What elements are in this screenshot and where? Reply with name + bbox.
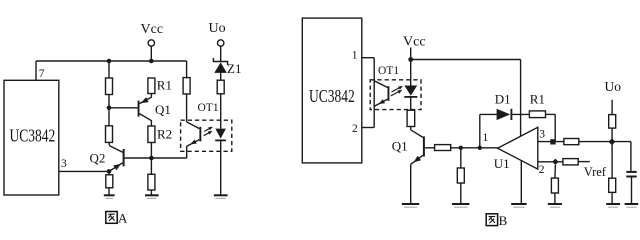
node A junction dot	[107, 106, 112, 111]
ground Q1 right	[402, 203, 419, 205]
wire Q1 base	[109, 107, 138, 109]
wire resistor to Q1 collector	[410, 127, 412, 130]
svg-text:R1: R1	[530, 91, 545, 106]
ground op-amp	[511, 203, 527, 205]
LED cathode bar right	[404, 96, 417, 98]
node pin2 diamond junction	[552, 159, 558, 165]
svg-text:R2: R2	[157, 127, 172, 142]
resistor bottom-left	[106, 175, 113, 188]
wire rail from pin 7	[36, 60, 187, 62]
node junction divider	[459, 146, 463, 150]
wire cap to ground	[631, 177, 633, 204]
capacitor C1 top plate	[626, 171, 636, 173]
ground mid	[145, 194, 159, 196]
wire LED to resistor	[410, 97, 412, 110]
svg-text:R1: R1	[157, 78, 172, 93]
wire op-amp bottom to ground	[520, 161, 522, 204]
resistor Vref chain	[609, 178, 616, 192]
resistor pin3 row	[564, 139, 579, 145]
ground left	[104, 194, 115, 196]
wire Vcc down	[410, 48, 412, 60]
wire Vcc rail right	[411, 59, 521, 61]
wire R2 to bottom resistor	[150, 143, 152, 175]
wire to ground	[150, 190, 152, 195]
pin 1 wire	[362, 57, 374, 59]
node pin3 square junction	[550, 139, 555, 144]
wire pin3 row to cap corner	[579, 141, 631, 143]
svg-text:A: A	[118, 211, 128, 226]
wire junction to bottom-left resistor	[108, 171, 110, 174]
svg-text:Vcc: Vcc	[141, 22, 164, 37]
wire pin1-pin2 connector	[373, 58, 375, 128]
wire to D1	[480, 113, 497, 115]
wire rail to upper-left resistor	[108, 61, 110, 78]
transistor Q1 right emitter diagonal	[411, 155, 423, 164]
wire emitter down	[186, 146, 188, 158]
Uo terminal circle left	[218, 40, 224, 46]
light arrow 1 right	[392, 87, 402, 92]
wire Uo to zener	[220, 46, 222, 61]
ground cap	[625, 203, 639, 205]
node junction D1 tap	[478, 146, 482, 150]
resistor bottom-mid	[148, 174, 155, 190]
wire to Vref terminal	[578, 161, 590, 163]
svg-text:UC3842: UC3842	[309, 88, 355, 107]
optocoupler OT1 right dashed box	[370, 80, 421, 110]
resistor zener chain	[217, 80, 224, 94]
wire R1 to corner	[546, 113, 556, 115]
resistor upper-left (bias)	[106, 78, 113, 95]
svg-text:Q1: Q1	[392, 139, 408, 154]
wire resistor to junction	[611, 128, 613, 142]
pin 2 wire	[362, 127, 374, 129]
LED triangle left	[215, 129, 226, 139]
svg-text:Z1: Z1	[227, 61, 241, 76]
light arrow 2 right	[391, 91, 401, 96]
ground right-left-circuit	[214, 194, 228, 196]
svg-text:3: 3	[61, 158, 67, 170]
phototransistor emitter arrow	[190, 140, 196, 145]
wire divider down	[460, 148, 462, 168]
svg-text:Uo: Uo	[605, 79, 622, 94]
phototransistor emitter diagonal	[187, 140, 200, 147]
wire resistor to LED	[220, 94, 222, 129]
wire Q1 emitter to ground	[410, 164, 412, 203]
wire junction down to Vref resistor	[611, 142, 613, 179]
svg-text:3: 3	[539, 128, 545, 140]
light arrow 1	[204, 127, 211, 131]
node junction mid wire	[149, 156, 154, 161]
svg-text:U1: U1	[494, 156, 510, 171]
svg-text:Vcc: Vcc	[403, 35, 426, 50]
resistor R1	[148, 78, 155, 94]
phototransistor collector diagonal right	[374, 81, 387, 88]
wire to ground	[554, 193, 556, 203]
resistor R1 right	[529, 111, 545, 118]
phototransistor bar right	[388, 86, 390, 101]
svg-text:B: B	[499, 213, 508, 228]
wire Uo down	[611, 100, 613, 115]
zener Z1 cathode bar	[213, 58, 227, 65]
resistor Q1 base	[435, 145, 451, 151]
ground divider	[452, 203, 469, 205]
wire corner down to pin3 node	[554, 114, 556, 141]
resistor top-right	[183, 78, 190, 94]
wire Q1 base to resistor	[425, 147, 435, 149]
svg-text:2: 2	[352, 123, 358, 135]
svg-text:7: 7	[39, 68, 45, 80]
ground pin2 divider	[548, 203, 562, 205]
resistor lower-left (bias)	[106, 126, 113, 143]
wire D1 tap up	[479, 114, 481, 147]
svg-text:1: 1	[483, 132, 489, 144]
phototransistor emitter arrow right	[379, 99, 385, 104]
wire resistor to optocoupler collector	[186, 94, 188, 122]
wire Vcc to rail	[150, 46, 152, 61]
wire op-amp pin2	[538, 161, 563, 163]
node Vcc junction right	[408, 57, 413, 62]
transistor Q1 collector diagonal	[140, 114, 152, 126]
transistor Q1 right collector diagonal	[411, 130, 423, 138]
wire Vcc to LED right	[410, 60, 412, 86]
transistor Q1 emitter diagonal	[140, 94, 152, 104]
svg-text:OT1: OT1	[198, 102, 219, 114]
resistor Uo chain	[609, 115, 616, 129]
phototransistor bar	[199, 127, 201, 141]
figure label A	[106, 212, 117, 224]
wire Q2 base to optocoupler	[125, 157, 187, 159]
transistor Q2 collector diagonal	[109, 146, 122, 153]
transistor Q2 emitter diagonal	[109, 163, 123, 172]
pin 7 stub wire	[35, 61, 37, 80]
resistor LED chain	[407, 110, 415, 126]
svg-text:1: 1	[352, 50, 358, 62]
op-amp U1 triangle	[498, 127, 538, 169]
LED cathode bar left	[215, 139, 226, 141]
node junction pin3	[107, 169, 112, 174]
optocoupler OT1 dashed box	[181, 120, 232, 151]
wire resistor to node A	[108, 95, 110, 126]
transistor Q1 right base bar	[423, 136, 425, 156]
IC U-right UC3842 box	[302, 18, 362, 163]
diode D1 triangle	[497, 109, 511, 120]
node junction rail-left	[107, 59, 112, 64]
zener Z1 triangle	[214, 62, 227, 73]
node Uo junction diamond	[609, 138, 616, 145]
wire zener to resistor	[220, 73, 222, 81]
transistor Q2 base bar	[123, 149, 125, 166]
wire op-amp pin3	[538, 141, 564, 143]
svg-text:2: 2	[539, 164, 545, 176]
wire Vcc drop to op-amp	[520, 60, 522, 137]
IC U-left UC3842 box	[4, 80, 59, 195]
resistor divider	[457, 168, 464, 183]
wire rail right corner down	[186, 61, 188, 78]
wire divider to ground	[460, 183, 462, 203]
transistor Q2 emitter arrow	[113, 164, 121, 170]
wire pin2 junction down	[554, 165, 557, 178]
phototransistor collector diagonal	[187, 122, 200, 129]
pin 3 wire	[59, 170, 109, 172]
resistor pin2 divider	[551, 178, 558, 193]
wire D1 to R1	[511, 113, 529, 115]
svg-text:OT1: OT1	[378, 65, 399, 77]
LED triangle right	[404, 86, 417, 96]
phototransistor emitter diagonal right	[374, 99, 387, 106]
svg-text:Q2: Q2	[90, 150, 106, 165]
capacitor C1 bottom plate	[626, 176, 636, 178]
svg-text:Uo: Uo	[209, 21, 226, 36]
svg-text:Vref: Vref	[584, 165, 607, 179]
svg-text:Q1: Q1	[155, 102, 171, 117]
resistor R2	[148, 126, 155, 143]
transistor Q1 right emitter arrow	[414, 156, 422, 163]
transistor Q1 base bar	[138, 101, 140, 117]
Vcc terminal circle left	[148, 40, 154, 46]
figure label B	[486, 214, 497, 226]
diode D1 cathode bar	[510, 109, 512, 120]
wire to ground	[108, 188, 110, 195]
node junction rail-Vcc	[149, 59, 154, 64]
resistor pin2 row	[563, 159, 578, 165]
wire to ground	[611, 192, 613, 203]
wire cap corner down	[630, 142, 632, 171]
wire base resistor to op-amp	[451, 147, 498, 149]
transistor Q1 emitter arrow	[141, 97, 149, 103]
svg-text:D1: D1	[495, 91, 511, 106]
wire resistor to Q2 collector	[108, 142, 110, 145]
svg-text:UC3842: UC3842	[10, 127, 56, 146]
light arrow 2	[204, 132, 211, 136]
wire LED to ground	[220, 140, 222, 194]
ground Vref chain	[606, 203, 620, 205]
